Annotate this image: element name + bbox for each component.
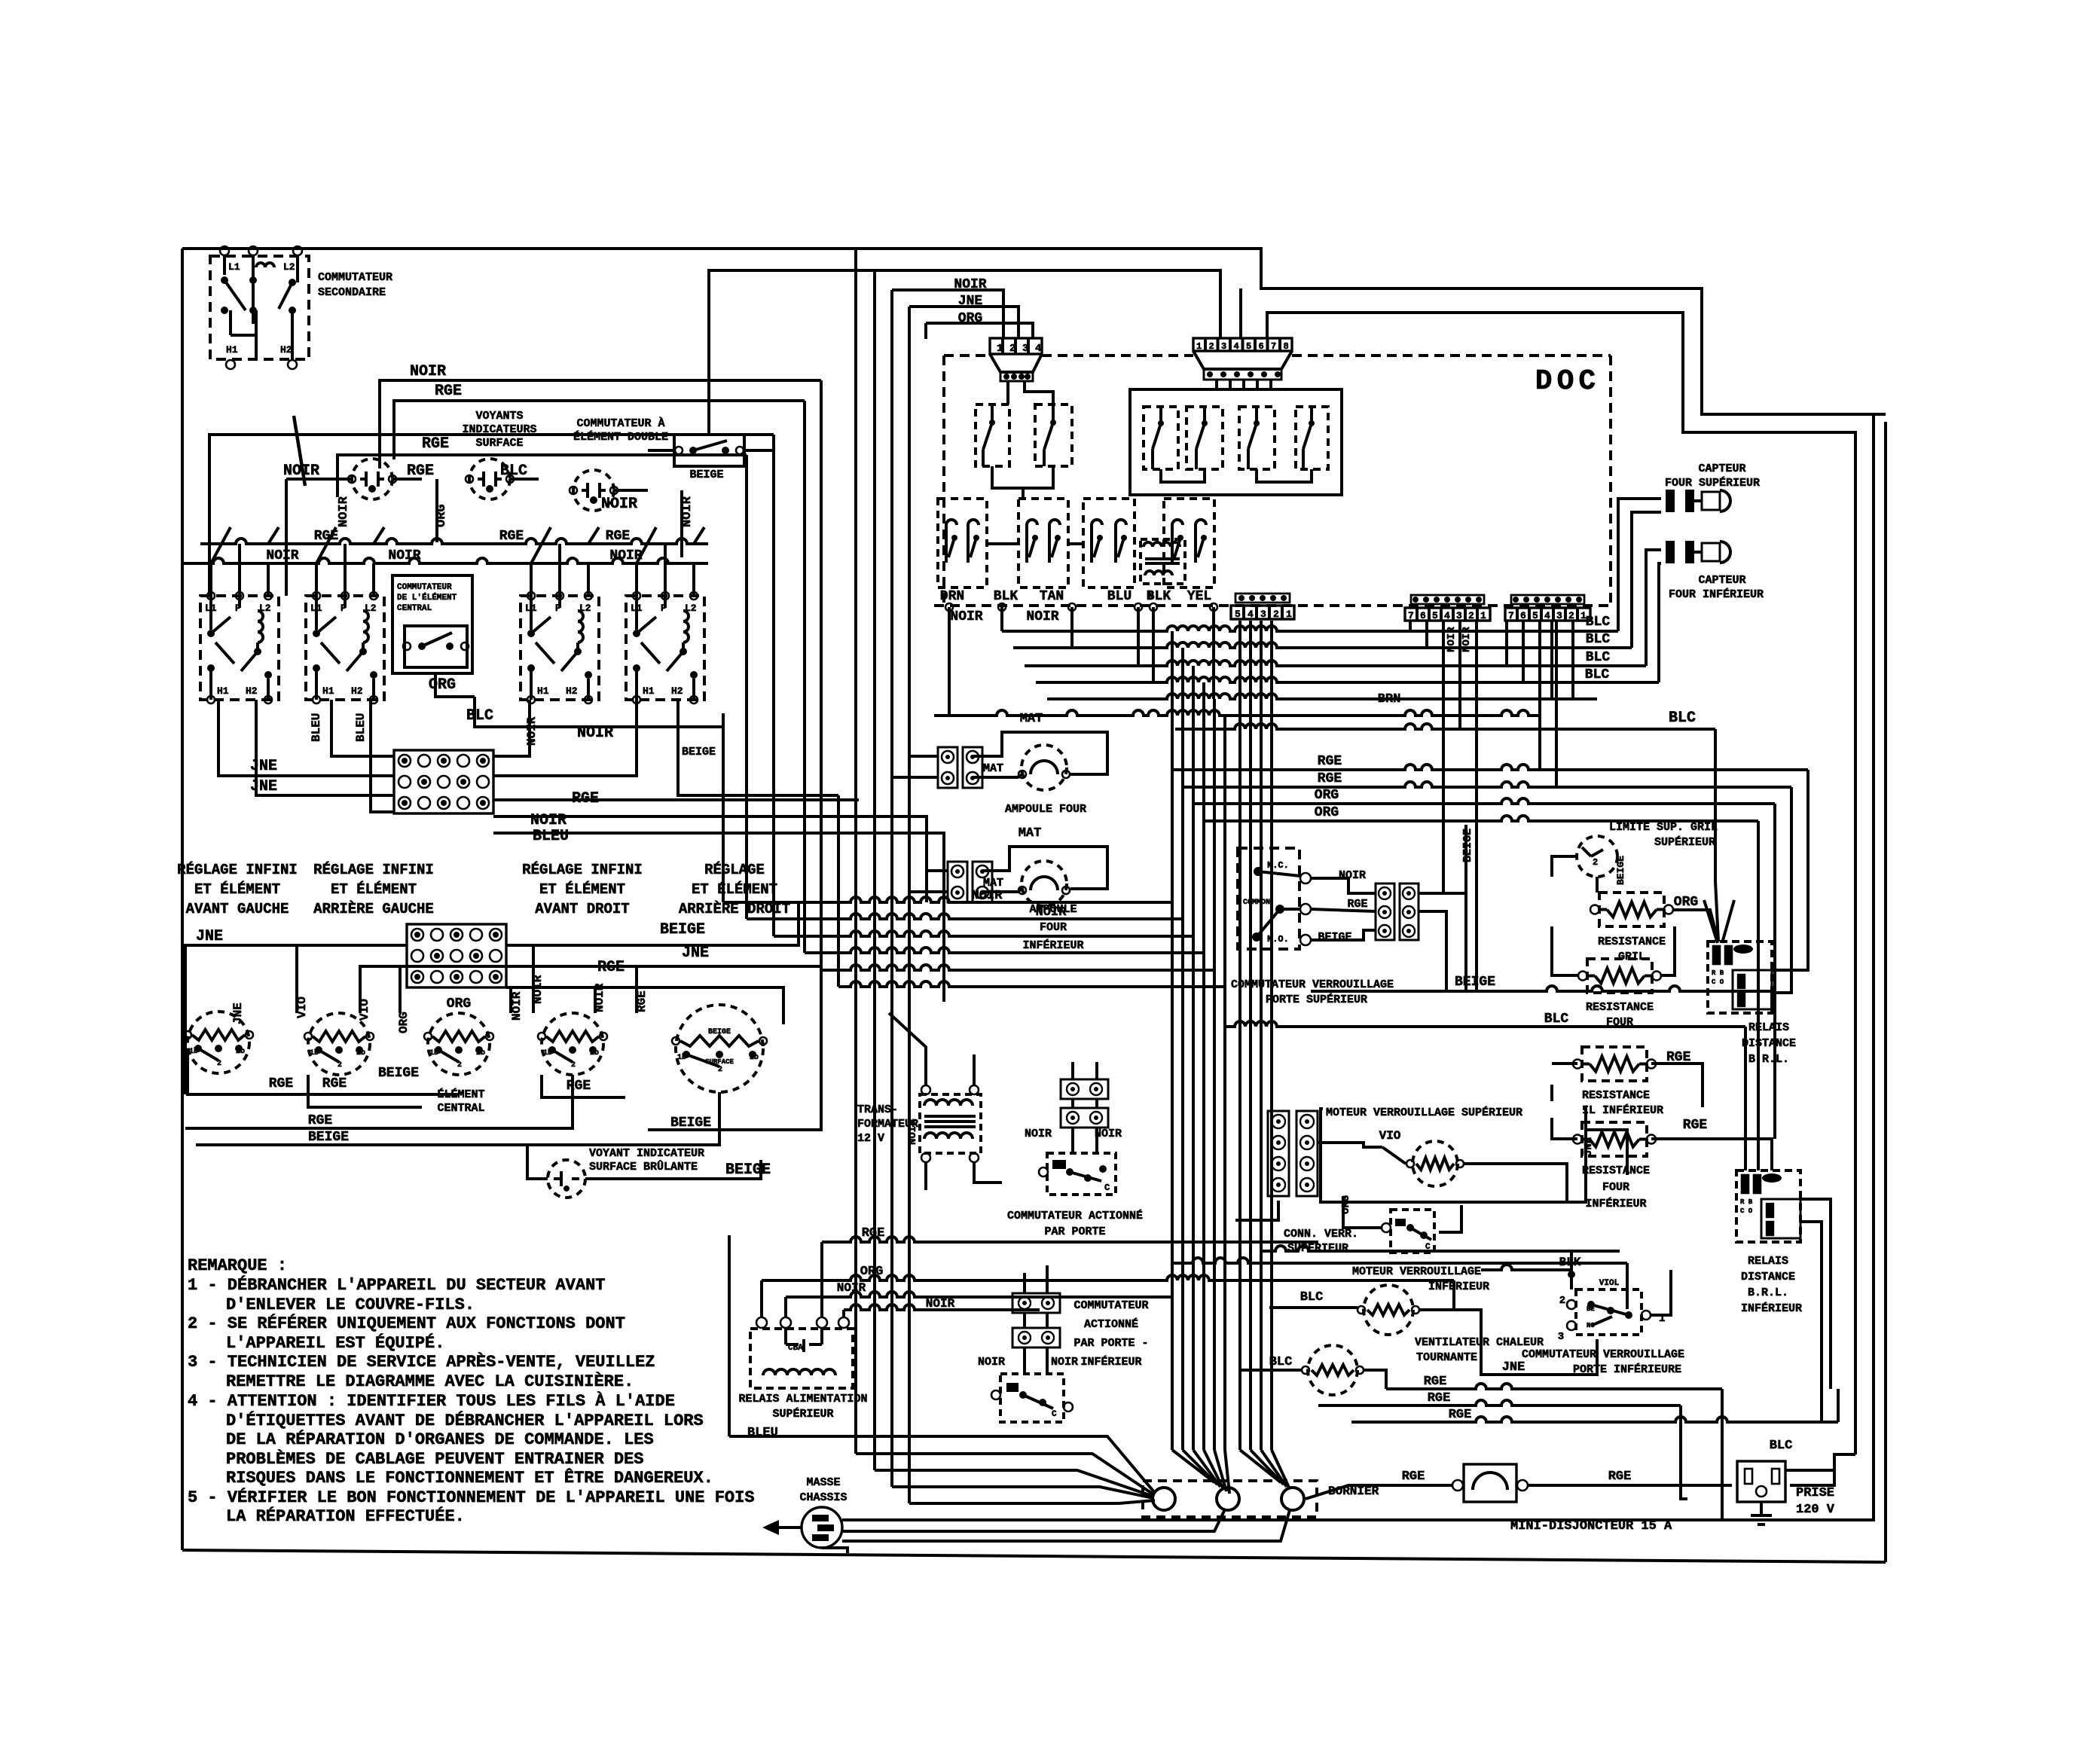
svg-text:3: 3 (1022, 343, 1028, 355)
svg-text:VIO: VIO (1379, 1129, 1401, 1143)
svg-text:D'ÉTIQUETTES AVANT DE DÉBRANCH: D'ÉTIQUETTES AVANT DE DÉBRANCHER L'APPAR… (226, 1411, 704, 1430)
svg-text:2: 2 (337, 1061, 342, 1070)
svg-text:R B: R B (1712, 969, 1724, 977)
svg-text:2b: 2b (236, 1047, 245, 1056)
svg-text:JNE: JNE (196, 928, 223, 945)
svg-text:RGE: RGE (606, 529, 631, 544)
svg-text:VOYANTS: VOYANTS (475, 410, 523, 423)
svg-text:YEL: YEL (1187, 589, 1211, 604)
svg-text:12 V: 12 V (857, 1132, 884, 1145)
svg-text:INFÉRIEUR: INFÉRIEUR (1585, 1197, 1646, 1210)
svg-text:ORG: ORG (1315, 788, 1339, 803)
svg-text:AMPOULE: AMPOULE (1029, 903, 1077, 916)
svg-text:NOIR: NOIR (601, 496, 637, 513)
svg-text:PROBLÈMES DE CABLAGE PEUVENT E: PROBLÈMES DE CABLAGE PEUVENT ENTRAINER D… (226, 1449, 644, 1469)
svg-text:COMMUTATEUR ACTIONNÉ: COMMUTATEUR ACTIONNÉ (1007, 1209, 1143, 1222)
svg-text:2b: 2b (590, 1048, 599, 1057)
svg-text:ET ÉLÉMENT: ET ÉLÉMENT (692, 881, 777, 898)
svg-text:VENTILATEUR CHALEUR: VENTILATEUR CHALEUR (1415, 1336, 1544, 1349)
svg-text:NOIR: NOIR (410, 363, 446, 380)
svg-text:H1: H1 (537, 685, 549, 697)
svg-text:NOIR: NOIR (1026, 609, 1058, 624)
svg-text:INFÉRIEUR: INFÉRIEUR (1022, 938, 1083, 952)
svg-text:SURFACE: SURFACE (475, 437, 523, 450)
svg-text:CAPTEUR: CAPTEUR (1698, 574, 1745, 587)
svg-text:PAR PORTE -: PAR PORTE - (1073, 1337, 1148, 1350)
svg-text:COMMUTATEUR: COMMUTATEUR (397, 583, 452, 592)
svg-text:7: 7 (1408, 610, 1414, 621)
svg-text:2: 2 (571, 1061, 576, 1070)
svg-text:NOIR: NOIR (978, 1356, 1005, 1369)
svg-text:RGE: RGE (1347, 898, 1367, 911)
svg-text:B.R.L.: B.R.L. (1748, 1286, 1788, 1299)
svg-text:CHASSIS: CHASSIS (799, 1491, 847, 1504)
svg-text:L1: L1 (228, 261, 240, 273)
svg-text:GRIL: GRIL (1618, 951, 1645, 963)
svg-text:BLC: BLC (466, 707, 493, 725)
svg-text:2: 2 (1559, 1295, 1565, 1307)
svg-text:JNE: JNE (1583, 1137, 1595, 1156)
svg-text:JNE: JNE (231, 1003, 245, 1024)
svg-text:R B: R B (1740, 1198, 1753, 1206)
svg-text:DRN: DRN (940, 589, 964, 604)
svg-text:FOUR: FOUR (1040, 921, 1067, 934)
svg-text:MAT: MAT (983, 762, 1003, 775)
svg-text:JNE: JNE (250, 758, 277, 775)
svg-text:1b: 1b (189, 1047, 198, 1056)
svg-text:4: 4 (1248, 609, 1254, 620)
svg-text:CENTRAL: CENTRAL (437, 1102, 484, 1115)
svg-text:7: 7 (1508, 610, 1514, 621)
svg-text:RÉGLAGE: RÉGLAGE (704, 862, 765, 878)
svg-text:RGE: RGE (1428, 1391, 1451, 1405)
svg-text:INDICATEURS: INDICATEURS (462, 423, 536, 436)
svg-text:5 - VÉRIFIER LE BON FONCTIONNE: 5 - VÉRIFIER LE BON FONCTIONNEMENT DE L'… (188, 1488, 755, 1507)
svg-text:RELAIS: RELAIS (1748, 1255, 1788, 1268)
svg-text:NOIR: NOIR (1339, 869, 1366, 882)
svg-text:D'ENLEVER LE COUVRE-FILS.: D'ENLEVER LE COUVRE-FILS. (226, 1296, 475, 1314)
svg-text:RGE: RGE (1608, 1469, 1632, 1484)
svg-text:B.R.L.: B.R.L. (1748, 1053, 1789, 1066)
svg-text:JNE: JNE (682, 945, 709, 962)
svg-text:COMMUTATEUR: COMMUTATEUR (1073, 1299, 1148, 1312)
svg-text:C O: C O (1712, 978, 1724, 986)
svg-text:ACTIONNÉ: ACTIONNÉ (1084, 1317, 1138, 1331)
svg-text:RGE: RGE (1424, 1375, 1447, 1389)
svg-text:BLC: BLC (500, 462, 527, 480)
svg-text:BLEU: BLEU (354, 713, 368, 742)
svg-text:6: 6 (1259, 341, 1264, 352)
svg-text:RGE: RGE (597, 959, 625, 976)
svg-text:ÉLÉMENT DOUBLE: ÉLÉMENT DOUBLE (573, 430, 668, 444)
svg-text:ET ÉLÉMENT: ET ÉLÉMENT (331, 881, 417, 898)
svg-text:RESISTANCE: RESISTANCE (1582, 1164, 1650, 1177)
svg-text:RESISTANCE: RESISTANCE (1582, 1089, 1650, 1102)
svg-text:RGE: RGE (407, 462, 434, 480)
svg-text:1: 1 (1480, 610, 1486, 621)
svg-text:ORG: ORG (1315, 805, 1339, 820)
svg-text:AVANT GAUCHE: AVANT GAUCHE (186, 901, 289, 917)
svg-text:NOIR: NOIR (1446, 627, 1458, 652)
svg-text:H1: H1 (217, 685, 229, 697)
svg-text:DE LA RÉPARATION D'ORGANES DE: DE LA RÉPARATION D'ORGANES DE COMMANDE. … (226, 1430, 654, 1449)
svg-text:RGE: RGE (1318, 754, 1342, 769)
svg-text:MASSE: MASSE (806, 1476, 840, 1489)
svg-text:BEIGE: BEIGE (660, 921, 705, 938)
svg-text:RGE: RGE (435, 383, 462, 400)
svg-text:RGE: RGE (308, 1113, 333, 1128)
svg-text:H1: H1 (226, 344, 238, 356)
svg-text:1: 1 (997, 343, 1003, 355)
svg-text:BLC: BLC (1586, 615, 1611, 630)
svg-text:BLC: BLC (1300, 1290, 1324, 1305)
svg-text:BLC: BLC (1585, 667, 1610, 682)
svg-text:H2: H2 (671, 685, 683, 697)
svg-text:RGE: RGE (322, 1076, 347, 1091)
svg-text:INFÉRIEUR: INFÉRIEUR (1741, 1302, 1802, 1315)
svg-text:BLEU: BLEU (533, 828, 569, 845)
svg-text:PRISE: PRISE (1796, 1486, 1834, 1500)
svg-text:CAPTEUR: CAPTEUR (1698, 462, 1745, 475)
svg-text:NOIR: NOIR (337, 496, 351, 527)
svg-text:3: 3 (1456, 610, 1462, 621)
svg-text:SUPÉRIEUR: SUPÉRIEUR (772, 1407, 833, 1421)
svg-text:3: 3 (1260, 609, 1266, 620)
svg-text:4: 4 (1444, 610, 1450, 621)
svg-text:FOUR INFÉRIEUR: FOUR INFÉRIEUR (1669, 587, 1764, 601)
svg-text:JNE: JNE (1502, 1360, 1525, 1375)
svg-text:NO: NO (1587, 1322, 1595, 1329)
svg-text:VOYANT INDICATEUR: VOYANT INDICATEUR (589, 1147, 704, 1160)
svg-text:L'APPAREIL EST ÉQUIPÉ.: L'APPAREIL EST ÉQUIPÉ. (226, 1333, 444, 1353)
svg-text:INFÉRIEUR: INFÉRIEUR (1428, 1280, 1489, 1293)
svg-text:INFÉRIEUR: INFÉRIEUR (1080, 1355, 1141, 1369)
svg-text:SUPÉRIEUR: SUPÉRIEUR (1287, 1241, 1348, 1255)
svg-text:7: 7 (1271, 341, 1276, 352)
svg-text:2: 2 (1468, 610, 1474, 621)
svg-text:MOTEUR VERROUILLAGE: MOTEUR VERROUILLAGE (1352, 1265, 1481, 1278)
svg-text:ORG: ORG (429, 676, 456, 694)
svg-text:BLK: BLK (994, 589, 1019, 604)
svg-text:RGE: RGE (1449, 1408, 1472, 1422)
svg-text:NOIR: NOIR (388, 548, 420, 563)
svg-text:C: C (1104, 1183, 1110, 1193)
svg-text:SECONDAIRE: SECONDAIRE (318, 286, 386, 299)
svg-text:1: 1 (1286, 609, 1292, 620)
svg-text:H2: H2 (351, 685, 363, 697)
svg-text:RGE: RGE (269, 1076, 294, 1091)
svg-text:RELAIS ALIMENTATION: RELAIS ALIMENTATION (738, 1393, 867, 1405)
svg-text:RESISTANCE: RESISTANCE (1586, 1001, 1654, 1014)
svg-text:TAN: TAN (1040, 589, 1064, 604)
svg-text:FOUR SUPÉRIEUR: FOUR SUPÉRIEUR (1665, 476, 1760, 490)
svg-text:H1: H1 (643, 685, 655, 697)
svg-text:BEIGE: BEIGE (1615, 856, 1626, 885)
svg-text:2: 2 (217, 1060, 221, 1068)
svg-text:AMPOULE FOUR: AMPOULE FOUR (1005, 803, 1086, 816)
svg-text:4 - ATTENTION : IDENTIFIER TO: 4 - ATTENTION : IDENTIFIER TOUS LES FILS… (188, 1391, 675, 1411)
svg-text:4: 4 (1544, 610, 1550, 621)
svg-text:4: 4 (1234, 341, 1239, 352)
svg-text:NOIR: NOIR (950, 609, 982, 624)
svg-text:NOIR: NOIR (1461, 627, 1473, 652)
svg-text:TRANS-: TRANS- (857, 1103, 898, 1116)
svg-text:SURFACE BRÛLANTE: SURFACE BRÛLANTE (589, 1160, 698, 1173)
svg-text:BEIGE: BEIGE (378, 1066, 419, 1081)
svg-text:CENTRAL: CENTRAL (397, 604, 432, 613)
svg-text:NOIR: NOIR (530, 812, 567, 829)
svg-text:TOURNANTE: TOURNANTE (1416, 1351, 1477, 1364)
svg-text:BEIGE: BEIGE (689, 468, 723, 481)
svg-text:NOIR: NOIR (1025, 1128, 1052, 1140)
svg-text:PAR PORTE: PAR PORTE (1044, 1225, 1105, 1238)
svg-text:2b: 2b (476, 1048, 485, 1057)
svg-text:BLC: BLC (1669, 710, 1696, 727)
svg-text:C: C (1052, 1410, 1057, 1419)
svg-text:RGE: RGE (1318, 771, 1342, 786)
svg-text:COMMUTATEUR VERROUILLAGE: COMMUTATEUR VERROUILLAGE (1522, 1348, 1684, 1361)
svg-text:2b: 2b (750, 1053, 759, 1062)
svg-text:8: 8 (1284, 341, 1289, 352)
svg-text:BLC: BLC (1770, 1439, 1793, 1453)
svg-text:NOIR: NOIR (283, 462, 319, 480)
svg-text:5: 5 (1532, 610, 1538, 621)
svg-text:MAT: MAT (1019, 826, 1042, 841)
svg-text:3: 3 (1558, 1331, 1564, 1343)
svg-text:RÉGLAGE INFINI: RÉGLAGE INFINI (177, 862, 298, 878)
svg-text:H2: H2 (280, 344, 292, 356)
svg-text:ORG: ORG (1674, 895, 1698, 910)
svg-text:BLC: BLC (1586, 632, 1611, 647)
svg-text:5: 5 (1235, 609, 1241, 620)
svg-text:BLEU: BLEU (310, 713, 323, 742)
svg-text:2: 2 (1009, 343, 1015, 355)
svg-text:BEIGE: BEIGE (682, 746, 716, 758)
svg-text:BLC: BLC (1586, 650, 1611, 665)
svg-text:REMARQUE :: REMARQUE : (188, 1256, 287, 1275)
svg-text:3: 3 (1221, 341, 1226, 352)
svg-text:2: 2 (1568, 610, 1574, 621)
svg-text:NOIR: NOIR (266, 548, 298, 563)
svg-text:RGE: RGE (1402, 1469, 1425, 1484)
svg-text:2b: 2b (356, 1048, 365, 1057)
svg-text:COMMUTATEUR VERROUILLAGE: COMMUTATEUR VERROUILLAGE (1231, 978, 1394, 991)
svg-text:ARRIÈRE GAUCHE: ARRIÈRE GAUCHE (313, 901, 434, 917)
svg-text:2: 2 (457, 1061, 462, 1070)
svg-text:SUPÉRIEUR: SUPÉRIEUR (1654, 835, 1715, 849)
svg-text:COMMON: COMMON (1243, 899, 1270, 907)
svg-text:COMMUTATEUR À: COMMUTATEUR À (576, 417, 664, 430)
svg-text:COMMUTATEUR: COMMUTATEUR (318, 271, 392, 284)
svg-text:BE: BE (1587, 1305, 1595, 1313)
svg-text:CONN. VERR.: CONN. VERR. (1284, 1228, 1358, 1241)
svg-text:SURFACE: SURFACE (705, 1058, 734, 1066)
svg-text:BEIGE: BEIGE (1318, 931, 1351, 944)
svg-text:PORTE SUPÉRIEUR: PORTE SUPÉRIEUR (1266, 993, 1367, 1006)
svg-text:BEIGE: BEIGE (308, 1130, 349, 1145)
svg-text:NOIR: NOIR (1095, 1128, 1122, 1140)
svg-text:120 V: 120 V (1796, 1503, 1835, 1517)
svg-text:6: 6 (1520, 610, 1526, 621)
svg-text:2: 2 (1273, 609, 1279, 620)
svg-text:RESISTANCE: RESISTANCE (1598, 935, 1666, 948)
svg-text:H2: H2 (246, 685, 258, 697)
svg-text:2 - SE RÉFÉRER UNIQUEMENT AUX: 2 - SE RÉFÉRER UNIQUEMENT AUX FONCTIONS … (188, 1314, 625, 1333)
svg-text:NOIR: NOIR (1051, 1356, 1078, 1369)
svg-text:L2: L2 (283, 261, 295, 273)
svg-text:JNE: JNE (250, 778, 277, 795)
svg-text:RGE: RGE (499, 529, 524, 544)
svg-text:3: 3 (1556, 610, 1562, 621)
svg-text:BLEU: BLEU (747, 1426, 778, 1440)
svg-text:DOC: DOC (1535, 365, 1600, 398)
svg-text:2: 2 (718, 1066, 722, 1074)
svg-text:MOTEUR VERROUILLAGE SUPÉRIEUR: MOTEUR VERROUILLAGE SUPÉRIEUR (1326, 1106, 1522, 1119)
svg-text:BEIGE: BEIGE (708, 1028, 731, 1036)
svg-text:2: 2 (1593, 857, 1598, 868)
svg-text:NOIR: NOIR (577, 725, 613, 742)
svg-text:H1: H1 (322, 685, 334, 697)
svg-text:RÉGLAGE INFINI: RÉGLAGE INFINI (522, 862, 643, 878)
svg-text:DISTANCE: DISTANCE (1742, 1037, 1796, 1050)
svg-text:BLU: BLU (1107, 589, 1132, 604)
svg-text:BLC: BLC (1544, 1012, 1569, 1027)
svg-text:RGE: RGE (422, 435, 449, 453)
svg-text:ORG: ORG (447, 996, 471, 1012)
svg-text:DE L'ÉLÉMENT: DE L'ÉLÉMENT (397, 592, 457, 603)
svg-text:1b: 1b (429, 1048, 438, 1057)
svg-text:1b: 1b (677, 1053, 686, 1062)
svg-text:NOIR: NOIR (907, 1119, 919, 1145)
svg-text:1b: 1b (310, 1048, 319, 1057)
svg-text:ÉLÉMENT: ÉLÉMENT (437, 1088, 484, 1101)
svg-text:1 - DÉBRANCHER L'APPAREIL DU S: 1 - DÉBRANCHER L'APPAREIL DU SECTEUR AVA… (188, 1275, 606, 1295)
svg-text:ORG: ORG (397, 1012, 411, 1033)
svg-text:RISQUES DANS LE FONCTIONNEMENT: RISQUES DANS LE FONCTIONNEMENT ET ÊTRE D… (226, 1468, 713, 1488)
svg-text:RÉGLAGE INFINI: RÉGLAGE INFINI (313, 862, 434, 878)
svg-text:2: 2 (1209, 341, 1214, 352)
svg-text:BLK: BLK (1147, 589, 1171, 604)
svg-text:LA RÉPARATION EFFECTUÉE.: LA RÉPARATION EFFECTUÉE. (226, 1506, 465, 1526)
svg-text:LIMITE SUP. GRIL: LIMITE SUP. GRIL (1609, 821, 1718, 834)
svg-text:ET ÉLÉMENT: ET ÉLÉMENT (539, 881, 625, 898)
svg-text:1: 1 (1196, 341, 1202, 352)
svg-text:MAT: MAT (983, 877, 1003, 890)
svg-text:NOIR: NOIR (525, 716, 539, 746)
svg-text:1b: 1b (543, 1048, 552, 1057)
svg-text:DISTANCE: DISTANCE (1741, 1271, 1795, 1283)
svg-text:RGE: RGE (1683, 1118, 1708, 1133)
svg-text:5: 5 (1432, 610, 1438, 621)
svg-text:5: 5 (1246, 341, 1251, 352)
svg-text:REMETTRE LE DIAGRAMME AVEC LA: REMETTRE LE DIAGRAMME AVEC LA CUISINIÈRE… (226, 1372, 634, 1391)
svg-text:4: 4 (1035, 343, 1041, 355)
svg-text:6: 6 (1420, 610, 1426, 621)
svg-text:BEIGE: BEIGE (725, 1161, 771, 1179)
svg-text:H2: H2 (566, 685, 578, 697)
svg-text:C O: C O (1740, 1207, 1753, 1215)
svg-text:FOUR: FOUR (1602, 1181, 1629, 1194)
svg-text:MINI-DISJONCTEUR 15 A: MINI-DISJONCTEUR 15 A (1510, 1519, 1672, 1534)
svg-text:ET ÉLÉMENT: ET ÉLÉMENT (194, 881, 280, 898)
svg-text:RGE: RGE (567, 1079, 591, 1094)
svg-text:RELAIS: RELAIS (1748, 1021, 1789, 1034)
svg-text:MAT: MAT (1020, 712, 1043, 726)
svg-text:AVANT DROIT: AVANT DROIT (535, 901, 629, 917)
svg-text:VIOL: VIOL (1599, 1279, 1620, 1288)
svg-text:BEIGE: BEIGE (1461, 829, 1474, 862)
svg-text:3 - TECHNICIEN DE SERVICE APRÈ: 3 - TECHNICIEN DE SERVICE APRÈS-VENTE, V… (188, 1352, 655, 1372)
